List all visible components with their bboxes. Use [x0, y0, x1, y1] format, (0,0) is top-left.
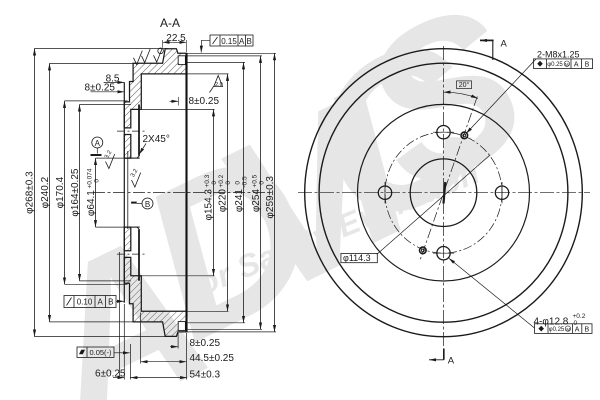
bolt hole right	[495, 186, 508, 199]
svg-text:2.0: 2.0	[215, 82, 223, 88]
leader M8 label	[466, 59, 536, 134]
svg-text:A: A	[239, 37, 245, 46]
svg-text:54±0.3: 54±0.3	[190, 370, 221, 381]
dimension lines left diameters	[35, 49, 96, 337]
frame 0.15 A B	[210, 35, 253, 46]
svg-text:B: B	[585, 62, 590, 69]
boss chamfer upper	[137, 155, 140, 158]
svg-text:A: A	[95, 139, 101, 148]
label dia 220	[218, 174, 233, 212]
svg-text:M: M	[566, 327, 570, 332]
center bore	[410, 159, 477, 227]
bore top surface	[124, 157, 139, 159]
bolt hole left	[378, 186, 391, 199]
svg-text:φ241: φ241	[234, 189, 245, 213]
label dia 64.1	[86, 168, 101, 216]
frame 0.05 bottom left	[77, 347, 114, 357]
step edge top	[124, 101, 129, 103]
mouth face (thick vertical)	[185, 53, 187, 332]
extension lines right side	[139, 53, 276, 332]
svg-text:2X45°: 2X45°	[143, 134, 170, 145]
label dia 241	[234, 176, 249, 212]
M8 frame	[534, 59, 593, 69]
20 deg box	[457, 81, 472, 89]
flange tab lower (white)	[178, 322, 185, 331]
svg-text:φ268±0.3: φ268±0.3	[25, 171, 36, 214]
svg-text:φ154.3: φ154.3	[204, 189, 215, 221]
dimension lines right diameters	[214, 53, 275, 332]
svg-text:φ0.25: φ0.25	[547, 62, 563, 68]
svg-text:0: 0	[94, 179, 101, 183]
svg-text:φ64.1: φ64.1	[86, 190, 97, 216]
center tick mark	[444, 182, 446, 204]
bolt hole bottom	[437, 247, 450, 260]
svg-text:A: A	[501, 39, 508, 50]
outer circle	[305, 49, 583, 337]
leader 0.15	[201, 40, 210, 52]
svg-text:A: A	[574, 62, 579, 69]
bolt hole centerline lower	[117, 253, 147, 255]
svg-text:2-M8x1.25: 2-M8x1.25	[537, 50, 580, 60]
phi 114.3 box	[341, 253, 377, 262]
svg-text:0.05(-): 0.05(-)	[89, 348, 112, 357]
frame 0.10 A B bottom left	[64, 296, 116, 308]
svg-text:φ254: φ254	[251, 189, 262, 213]
svg-text:0.15: 0.15	[221, 37, 237, 46]
bottom dims extension lines	[120, 252, 187, 380]
svg-text:+0.5: +0.5	[252, 174, 259, 187]
hub boss edge upper	[138, 105, 140, 156]
horizontal centerline	[298, 192, 590, 194]
phi 114.3 leader	[377, 155, 490, 254]
svg-text:0.10: 0.10	[77, 298, 93, 307]
svg-text:A: A	[575, 327, 580, 334]
svg-text:0: 0	[235, 181, 242, 185]
bore bottom surface	[124, 226, 139, 228]
svg-text:44.5±0.25: 44.5±0.25	[190, 353, 235, 364]
svg-text:B: B	[584, 327, 589, 334]
svg-text:φ164±0.25: φ164±0.25	[70, 168, 81, 217]
svg-text:M: M	[565, 62, 569, 67]
label dia 154.3	[204, 174, 219, 220]
boss chamfer lower	[137, 227, 140, 230]
extension lines left side	[34, 49, 168, 337]
svg-text:+0.074: +0.074	[87, 168, 94, 188]
M8 axis 20deg dash-dot	[420, 97, 478, 261]
svg-text:4-φ12.8: 4-φ12.8	[534, 317, 569, 328]
svg-text:+0.2: +0.2	[573, 313, 586, 320]
svg-text:φ0.25: φ0.25	[549, 327, 565, 333]
20 deg arc	[444, 92, 478, 98]
hub boss edge lower	[138, 230, 140, 281]
step edge bottom	[124, 282, 129, 284]
svg-text:20°: 20°	[459, 81, 470, 89]
svg-text:0: 0	[225, 181, 232, 185]
svg-text:φ259±0.3: φ259±0.3	[265, 176, 276, 219]
surface mark 3.2 upper	[106, 154, 141, 187]
leader 12.8	[449, 258, 535, 328]
svg-text:8±0.25: 8±0.25	[190, 338, 221, 349]
bolt hole ticks	[385, 132, 502, 253]
svg-text:0: 0	[211, 181, 218, 185]
svg-text:8±0.25: 8±0.25	[189, 96, 220, 107]
svg-text:A: A	[98, 298, 104, 307]
label dia 254	[251, 174, 266, 212]
flange tab upper (white)	[178, 56, 185, 65]
fourth circle (mouth opening)	[358, 104, 530, 281]
datum B circle	[142, 198, 153, 209]
axis centerline	[93, 192, 265, 194]
section arrow bottom	[443, 349, 445, 360]
M8 hole bottom left	[420, 247, 427, 254]
svg-text:B: B	[247, 37, 252, 46]
svg-text:+0.2: +0.2	[218, 174, 225, 187]
datum A circle	[92, 137, 103, 148]
svg-text:φ170.4: φ170.4	[55, 176, 66, 208]
hatched upper band polygon	[124, 49, 187, 158]
svg-text:-0.5: -0.5	[242, 176, 249, 188]
plate left face	[123, 82, 125, 302]
vertical centerline	[443, 46, 445, 346]
svg-text:φ240.2: φ240.2	[40, 176, 51, 208]
svg-text:A: A	[448, 356, 455, 367]
bolt circle dash-dot	[385, 132, 502, 253]
svg-text:+0.3: +0.3	[204, 174, 211, 187]
svg-text:A-A: A-A	[160, 16, 180, 30]
12.8 frame	[535, 324, 593, 334]
svg-text:φ220: φ220	[218, 189, 229, 213]
svg-text:B: B	[108, 298, 113, 307]
pilot ring line	[127, 151, 129, 229]
svg-text:φ114.3: φ114.3	[343, 253, 371, 263]
surface marks on top profile	[134, 48, 223, 93]
bolt hole top	[437, 126, 450, 139]
hatched lower band polygon	[124, 227, 187, 336]
M8 hole top right	[461, 132, 468, 139]
second circle	[319, 63, 568, 322]
bolt hole centerline upper	[117, 130, 147, 132]
svg-text:B: B	[145, 200, 150, 209]
section arrow top	[492, 40, 494, 60]
